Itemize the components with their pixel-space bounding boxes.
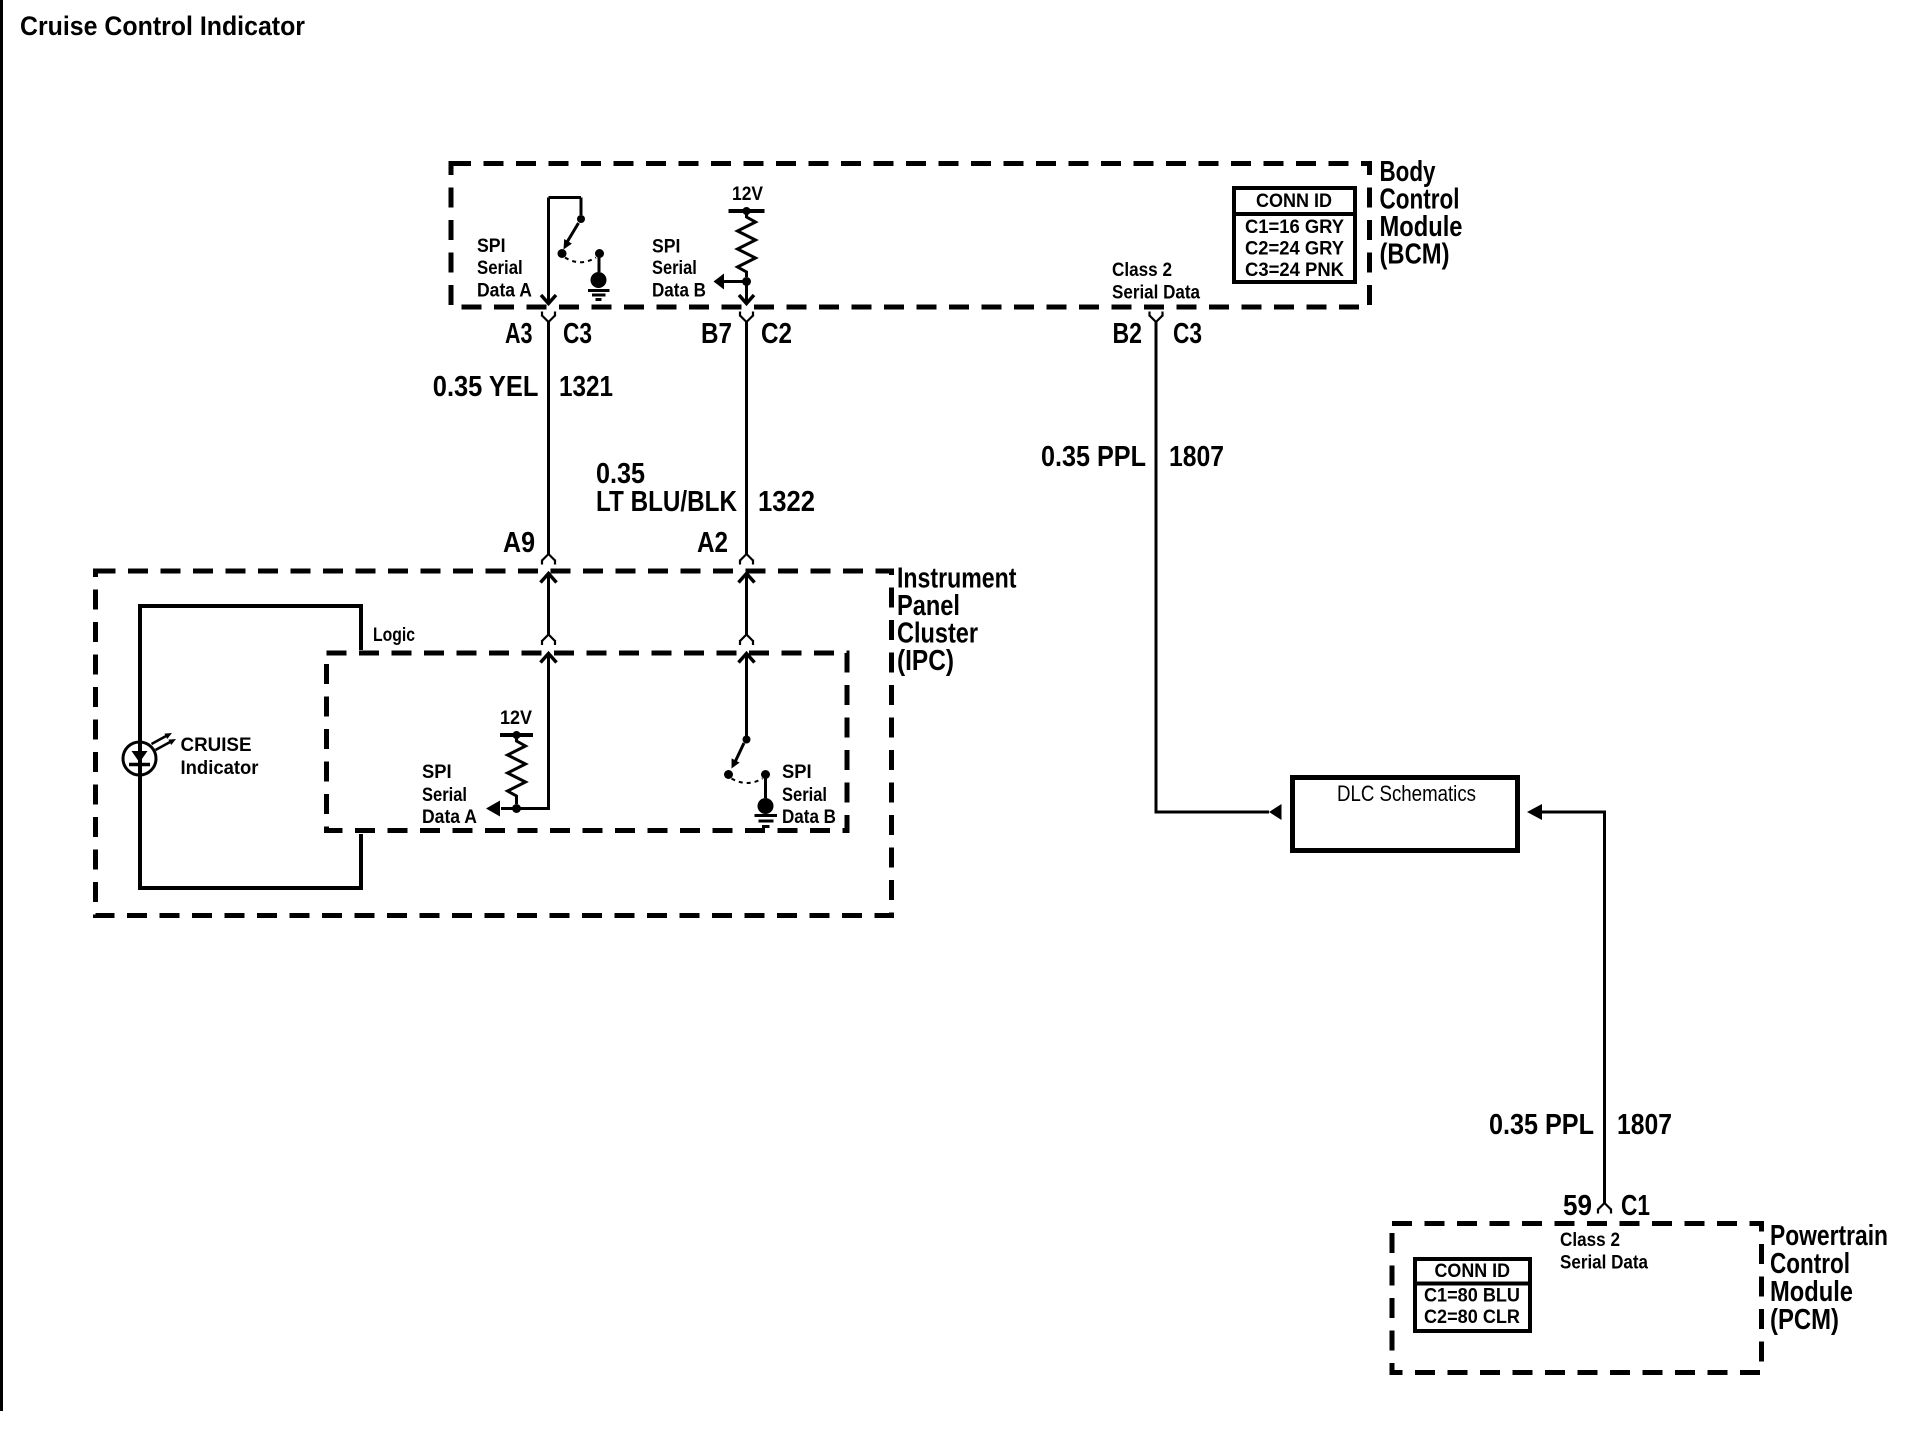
svg-text:C2: C2	[761, 318, 792, 350]
connector symbol at logic box (A9 wire)	[542, 635, 555, 646]
label: Body Control Module (BCM)	[1380, 156, 1463, 271]
label: Class 2 Serial Data (BCM)	[1112, 260, 1200, 304]
arrow to SPI Serial Data B label (BCM)	[714, 274, 747, 290]
svg-text:C3: C3	[1173, 318, 1202, 350]
svg-text:Serial: Serial	[782, 785, 827, 806]
IPC pin label A9	[503, 527, 535, 559]
svg-text:SPI: SPI	[782, 762, 812, 783]
label: SPI Serial Data B (BCM)	[652, 237, 706, 302]
svg-text:Class 2: Class 2	[1112, 260, 1172, 281]
svg-text:C3: C3	[563, 318, 592, 350]
switch pivot dot (BCM)	[577, 215, 585, 223]
CONN ID table (PCM)	[1415, 1259, 1530, 1331]
svg-text:C1=80 BLU: C1=80 BLU	[1424, 1286, 1520, 1307]
svg-text:C1: C1	[1621, 1190, 1650, 1222]
12V supply label (BCM)	[732, 184, 763, 205]
connector 59/C1 labels	[1563, 1190, 1650, 1222]
wire A9 inside IPC	[547, 574, 550, 635]
connector symbol 59/C1	[1598, 1203, 1611, 1214]
DLC Schematics box	[1293, 778, 1518, 851]
connector B2/C3 labels	[1113, 318, 1203, 350]
LED CRUISE indicator	[123, 733, 176, 775]
wire label 0.35 PPL 1807 (upper)	[1041, 441, 1224, 473]
label: Class 2 Serial Data (PCM)	[1560, 1230, 1648, 1274]
IPC module dashed box	[96, 571, 892, 916]
svg-text:Logic: Logic	[373, 625, 415, 646]
arrow at IPC border (A9 wire)	[541, 574, 557, 583]
svg-text:59: 59	[1563, 1190, 1592, 1222]
svg-text:A9: A9	[503, 527, 535, 559]
svg-text:12V: 12V	[732, 184, 763, 205]
svg-text:Data B: Data B	[782, 807, 836, 828]
wire 1807 (B2 to DLC)	[1156, 322, 1269, 812]
svg-text:B2: B2	[1113, 318, 1143, 350]
label: Instrument Panel Cluster (IPC)	[897, 563, 1017, 678]
PCM module dashed box	[1392, 1224, 1762, 1373]
connector symbol B7/C2	[740, 312, 753, 323]
svg-text:12V: 12V	[500, 708, 532, 729]
label: Powertrain Control Module (PCM)	[1770, 1220, 1888, 1336]
wire A9 to Data A arrow	[486, 654, 549, 817]
svg-text:0.35 PPL: 0.35 PPL	[1041, 441, 1146, 473]
svg-text:CRUISE: CRUISE	[181, 735, 252, 756]
svg-text:SPI: SPI	[477, 236, 506, 257]
connector symbol A3/C3	[542, 312, 555, 323]
svg-text:C2=24 GRY: C2=24 GRY	[1245, 239, 1344, 260]
label: SPI Serial Data B (IPC)	[782, 762, 836, 828]
svg-text:1807: 1807	[1617, 1109, 1672, 1141]
label: SPI Serial Data A (IPC)	[422, 762, 477, 828]
resistor (BCM pull-up)	[738, 211, 756, 277]
svg-text:CONN ID: CONN ID	[1256, 191, 1332, 212]
svg-text:Data A: Data A	[477, 281, 532, 302]
IPC inner dashed box	[327, 653, 848, 831]
switch blade with arrow (BCM)	[564, 223, 579, 250]
svg-text:Serial: Serial	[477, 258, 523, 279]
svg-text:(PCM): (PCM)	[1770, 1304, 1839, 1336]
label: SPI Serial Data A (BCM)	[477, 236, 532, 302]
IPC pin label A2	[697, 527, 728, 559]
arrowhead into DLC right	[1527, 804, 1542, 820]
svg-text:0.35 PPL: 0.35 PPL	[1489, 1109, 1594, 1141]
svg-text:Class 2: Class 2	[1560, 1230, 1620, 1251]
svg-text:Data B: Data B	[652, 281, 706, 302]
svg-text:1807: 1807	[1169, 441, 1224, 473]
svg-text:SPI: SPI	[652, 237, 680, 258]
svg-text:Serial Data: Serial Data	[1560, 1253, 1648, 1274]
12V supply bar with dot (IPC)	[500, 731, 533, 739]
switch ground contact dot (BCM)	[595, 249, 604, 258]
arrow at IPC border (A2 wire)	[739, 574, 755, 583]
connector symbol A9	[542, 554, 555, 565]
wire A2 inside IPC	[745, 574, 748, 635]
svg-text:Serial: Serial	[422, 785, 467, 806]
svg-text:Serial: Serial	[652, 258, 697, 279]
page left edge line	[0, 0, 3, 1411]
wire 1807 (DLC to PCM)	[1542, 812, 1605, 1203]
switch ground contact dot (IPC)	[761, 770, 770, 779]
svg-text:1322: 1322	[758, 486, 815, 518]
svg-text:(BCM): (BCM)	[1380, 239, 1450, 271]
svg-text:Indicator: Indicator	[181, 758, 260, 779]
connector A3/C3 labels	[505, 318, 592, 350]
arrow at IPC logic border (A2 wire)	[739, 654, 755, 663]
svg-text:A2: A2	[697, 527, 728, 559]
svg-text:LT BLU/BLK: LT BLU/BLK	[596, 486, 737, 518]
connector symbol A2	[740, 554, 753, 565]
connector symbol B2/C3	[1150, 312, 1163, 323]
arrowhead at DLC left	[1269, 804, 1282, 820]
svg-text:Data A: Data A	[422, 807, 477, 828]
svg-text:1321: 1321	[559, 371, 613, 403]
switch pivot dot (IPC)	[743, 736, 751, 744]
svg-text:Serial Data: Serial Data	[1112, 283, 1200, 304]
wire label 0.35 YEL 1321	[433, 371, 613, 403]
switch blade with arrow (IPC)	[732, 743, 745, 769]
wire 1322 (B7 to A2)	[745, 322, 748, 554]
wire label 0.35 LT BLU/BLK 1322	[596, 458, 815, 518]
arrow at IPC logic border (A9 wire)	[541, 654, 557, 663]
switch SPI Serial Data A (BCM) wire	[549, 198, 582, 302]
svg-text:SPI: SPI	[422, 762, 452, 783]
svg-text:A3: A3	[505, 318, 533, 350]
logic solid box	[140, 606, 361, 888]
switch contact dot (IPC)	[724, 770, 733, 779]
arrow into BCM border (Data A wire)	[541, 295, 556, 304]
wire B7 inside BCM with arrow at border	[739, 282, 754, 304]
svg-text:CONN ID: CONN ID	[1435, 1261, 1511, 1282]
12V supply bar with dot (BCM)	[729, 207, 765, 215]
switch throw dashed arc (IPC)	[732, 779, 763, 784]
svg-text:0.35 YEL: 0.35 YEL	[433, 371, 539, 403]
title: Cruise Control Indicator	[20, 11, 305, 41]
switch throw dashed arc (BCM)	[565, 258, 596, 263]
resistor (IPC pull-up)	[508, 735, 526, 804]
connector B7/C2 labels	[701, 318, 792, 350]
svg-text:C1=16 GRY: C1=16 GRY	[1245, 217, 1344, 238]
ground symbol (IPC)	[755, 777, 778, 827]
svg-text:(IPC): (IPC)	[897, 645, 954, 677]
junction dot (BCM resistor bottom)	[742, 277, 751, 286]
label: CRUISE Indicator	[181, 735, 260, 779]
svg-text:B7: B7	[701, 318, 732, 350]
wire label 0.35 PPL 1807 (lower)	[1489, 1109, 1672, 1141]
CONN ID table (BCM)	[1234, 188, 1355, 282]
svg-text:DLC Schematics: DLC Schematics	[1337, 781, 1476, 806]
wire 1321 (A3 to A9)	[547, 322, 550, 554]
svg-text:Cruise Control Indicator: Cruise Control Indicator	[20, 11, 305, 41]
connector symbol at logic box (A2 wire)	[740, 635, 753, 646]
wire A2 to switch pivot (IPC)	[745, 654, 748, 738]
BCM module dashed box	[451, 164, 1370, 308]
ground symbol (BCM)	[588, 256, 610, 300]
svg-text:C3=24 PNK: C3=24 PNK	[1245, 260, 1344, 281]
label: Logic	[373, 625, 415, 646]
12V supply label (IPC)	[500, 708, 532, 729]
junction dot (IPC resistor bottom)	[512, 804, 521, 813]
switch contact dot (BCM)	[558, 249, 567, 258]
svg-text:C2=80 CLR: C2=80 CLR	[1424, 1307, 1520, 1328]
